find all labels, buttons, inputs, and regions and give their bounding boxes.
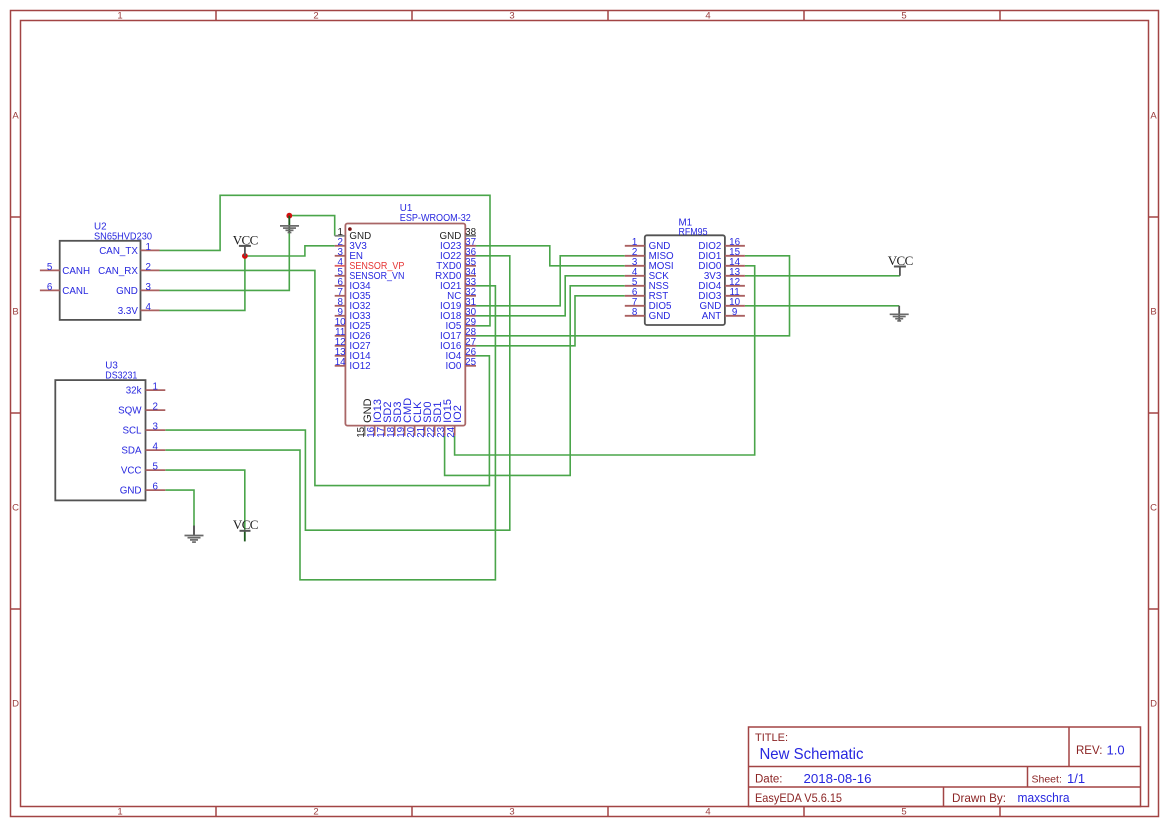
wire net DIO1: U1.28 IO17 to M1.15 DIO1 xyxy=(476,256,790,336)
U1 pin 5 SENSOR_VN xyxy=(335,275,346,277)
wire net VCC: junction down to U2.4 3.3V xyxy=(160,256,245,310)
svg-text:ANT: ANT xyxy=(702,311,722,322)
svg-text:CANL: CANL xyxy=(62,286,89,297)
svg-text:25: 25 xyxy=(465,357,476,368)
svg-text:4: 4 xyxy=(152,442,158,453)
wire net VCC: U3.5 down to VCC symbol xyxy=(165,470,245,531)
svg-text:VCC: VCC xyxy=(233,517,258,532)
U1 pin 23 IO15 xyxy=(444,426,446,436)
wire net MOSI: U1.37 IO23 to M1.3 MOSI xyxy=(476,246,625,266)
svg-text:14: 14 xyxy=(335,357,346,368)
junction dot GND node xyxy=(286,213,292,219)
U2 pin 5 CANH xyxy=(40,269,60,271)
ruler row letters xyxy=(12,110,1157,709)
U3 pin 6 GND xyxy=(146,489,166,491)
wire net GND: U2.3 up to junction at ground xyxy=(160,216,290,291)
wire net CAN_RX: U2.2 to U1.26 IO4 xyxy=(160,270,490,485)
svg-text:D: D xyxy=(1150,698,1157,709)
svg-text:3: 3 xyxy=(509,11,514,22)
svg-text:Date:: Date: xyxy=(755,774,783,786)
svg-text:DS3231: DS3231 xyxy=(105,370,137,381)
U1 pin 15 GND xyxy=(364,426,366,436)
U1 pin 10 IO25 xyxy=(335,325,346,327)
svg-text:A: A xyxy=(12,110,19,121)
wire net SCL: U3.3 to U1.36 IO22 xyxy=(165,256,510,530)
svg-text:VCC: VCC xyxy=(121,466,142,477)
U1 pin 30 IO18 xyxy=(465,315,476,317)
wire net GND: M1.10 GND to ground symbol xyxy=(745,305,899,307)
svg-text:Sheet:: Sheet: xyxy=(1032,774,1062,786)
U1 pin 26 IO4 xyxy=(465,355,476,357)
svg-text:2: 2 xyxy=(145,262,150,273)
U2 pin 4 3.3V xyxy=(141,309,160,311)
M1 pin 10 GND xyxy=(725,305,745,307)
U1 pin 9 IO33 xyxy=(335,315,346,317)
svg-text:CAN_TX: CAN_TX xyxy=(99,246,138,257)
U1 pin 25 IO0 xyxy=(465,365,476,367)
svg-text:RFM95: RFM95 xyxy=(679,227,708,238)
svg-text:1: 1 xyxy=(145,242,150,253)
svg-text:2: 2 xyxy=(313,807,318,818)
wire net NSS: U1.23 IO15 to M1.5 NSS xyxy=(445,286,625,476)
svg-text:1/1: 1/1 xyxy=(1067,771,1085,786)
svg-text:B: B xyxy=(1150,306,1156,317)
wire net SCK: U1.30 IO18 to M1.4 SCK xyxy=(476,276,625,316)
U1 pin 2 3V3 xyxy=(335,245,346,247)
svg-text:4: 4 xyxy=(705,11,710,22)
U2 pin 1 CAN_TX xyxy=(141,249,160,251)
svg-text:IO12: IO12 xyxy=(349,361,370,372)
M1 pin 1 GND xyxy=(625,245,645,247)
M1 pin 6 RST xyxy=(625,295,645,297)
svg-text:ESP-WROOM-32: ESP-WROOM-32 xyxy=(400,213,471,224)
M1 pin 15 DIO1 xyxy=(725,255,745,257)
U1 pin 8 IO32 xyxy=(335,305,346,307)
U1 pin 37 IO23 xyxy=(465,245,476,247)
svg-text:GND: GND xyxy=(649,311,671,322)
svg-text:CAN_RX: CAN_RX xyxy=(98,266,138,277)
ground symbol near M1 xyxy=(898,306,900,321)
U1 pin 34 RXD0 xyxy=(465,275,476,277)
M1 pin 11 DIO3 xyxy=(725,295,745,297)
svg-text:D: D xyxy=(12,698,19,709)
svg-text:3: 3 xyxy=(145,282,151,293)
wire net RST: U1.27 IO16 to M1.6 RST xyxy=(476,296,625,346)
svg-text:maxschra: maxschra xyxy=(1018,790,1071,805)
svg-text:GND: GND xyxy=(120,486,142,497)
U1 pin 36 IO22 xyxy=(465,255,476,257)
U1 pin 29 IO5 xyxy=(465,325,476,327)
ruler column numbers xyxy=(117,11,906,818)
U1 pin 38 GND xyxy=(465,235,476,237)
svg-text:1: 1 xyxy=(117,807,122,818)
svg-text:4: 4 xyxy=(145,302,151,313)
svg-text:32k: 32k xyxy=(126,386,142,397)
svg-text:2018-08-16: 2018-08-16 xyxy=(804,771,872,786)
wire net MISO: U1.31 IO19 to M1.2 MISO xyxy=(476,256,625,306)
M1 pin 12 DIO4 xyxy=(725,285,745,287)
IC U3 DS3231 RTC xyxy=(55,380,145,500)
svg-text:3.3V: 3.3V xyxy=(118,306,139,317)
ground symbol at U2/U1 GND junction xyxy=(288,216,290,233)
U1 pin 18 SD3 xyxy=(394,426,396,436)
svg-text:9: 9 xyxy=(732,307,737,318)
U1 pin 35 TXD0 xyxy=(465,265,476,267)
U1 pin 14 IO12 xyxy=(335,365,346,367)
wire net GND: junction to U1.1 GND xyxy=(289,216,334,236)
svg-text:5: 5 xyxy=(901,11,906,22)
svg-text:SN65HVD230: SN65HVD230 xyxy=(94,231,153,242)
M1 pin 8 GND xyxy=(625,315,645,317)
svg-text:5: 5 xyxy=(152,462,158,473)
U3 pin 5 VCC xyxy=(146,469,166,471)
U1 pin 4 SENSOR_VP xyxy=(335,265,346,267)
svg-text:A: A xyxy=(1150,110,1157,121)
svg-text:Drawn By:: Drawn By: xyxy=(952,791,1006,805)
wire net CAN_TX: U2.1 to U1.29 IO5 xyxy=(160,195,491,325)
wire net DIO0: U1.24 IO2 to M1.14 DIO0 xyxy=(455,266,755,455)
svg-text:B: B xyxy=(12,306,18,317)
U1 pin 3 EN xyxy=(335,255,346,257)
title block xyxy=(749,727,1141,807)
svg-text:REV:: REV: xyxy=(1076,745,1102,757)
wire net SDA: U3.4 to U1.33 IO21 xyxy=(165,286,495,580)
svg-text:2: 2 xyxy=(152,402,157,413)
svg-text:New Schematic: New Schematic xyxy=(760,746,864,763)
U1 pin 28 IO17 xyxy=(465,335,476,337)
M1 pin 7 DIO5 xyxy=(625,305,645,307)
U1 pin 1 marker dot xyxy=(348,227,352,231)
U1 pin 24 IO2 xyxy=(454,426,456,436)
module M1 RFM95 LoRa xyxy=(645,235,725,325)
M1 pin 5 NSS xyxy=(625,285,645,287)
svg-text:IO0: IO0 xyxy=(446,361,462,372)
U1 pin 17 SD2 xyxy=(384,426,386,436)
wire net VCC: junction to U1.2 3V3 xyxy=(245,246,335,256)
svg-text:EasyEDA V5.6.15: EasyEDA V5.6.15 xyxy=(755,791,842,805)
svg-text:6: 6 xyxy=(152,482,158,493)
U2 pin 2 CAN_RX xyxy=(141,269,160,271)
U1 pin 31 IO19 xyxy=(465,305,476,307)
svg-text:24: 24 xyxy=(446,426,457,437)
wire net VCC: M1.13 3V3 to VCC symbol xyxy=(745,275,900,277)
U1 pin 33 IO21 xyxy=(465,285,476,287)
M1 pin 3 MOSI xyxy=(625,265,645,267)
ground symbol below U3 xyxy=(193,526,195,536)
U1 pin 21 SD0 xyxy=(424,426,426,436)
svg-text:5: 5 xyxy=(901,807,906,818)
U1 pin 6 IO34 xyxy=(335,285,346,287)
U1 pin 22 SD1 xyxy=(434,426,436,436)
svg-text:TITLE:: TITLE: xyxy=(755,732,788,744)
junction dot VCC node xyxy=(242,253,248,259)
U1 pin 19 CMD xyxy=(404,426,406,436)
M1 pin 13 3V3 xyxy=(725,275,745,277)
U1 pin 32 NC xyxy=(465,295,476,297)
svg-text:8: 8 xyxy=(632,307,638,318)
svg-text:SQW: SQW xyxy=(118,406,142,417)
svg-text:5: 5 xyxy=(47,262,53,273)
IC U2 SN65HVD230 CAN transceiver xyxy=(60,241,141,320)
wire net GND: U3.6 down to ground symbol xyxy=(165,490,194,526)
svg-text:1: 1 xyxy=(152,382,157,393)
M1 pin 16 DIO2 xyxy=(725,245,745,247)
svg-text:3: 3 xyxy=(152,422,158,433)
svg-text:C: C xyxy=(12,502,19,513)
U1 pin 12 IO27 xyxy=(335,345,346,347)
svg-text:SCL: SCL xyxy=(122,426,142,437)
U3 pin 3 SCL xyxy=(146,429,166,431)
IC U1 ESP-WROOM-32 module xyxy=(345,224,465,426)
U3 pin 1 32k xyxy=(146,389,166,391)
U1 pin 11 IO26 xyxy=(335,335,346,337)
U1 pin 1 GND xyxy=(335,235,346,237)
svg-text:1.0: 1.0 xyxy=(1107,743,1125,758)
U2 pin 6 CANL xyxy=(40,289,60,291)
U1 pin 7 IO35 xyxy=(335,295,346,297)
svg-text:6: 6 xyxy=(47,282,53,293)
U1 pin 16 IO13 xyxy=(374,426,376,436)
power symbol VCC below U3 (rotated) xyxy=(244,531,246,542)
svg-text:CANH: CANH xyxy=(62,266,90,277)
svg-text:4: 4 xyxy=(705,807,710,818)
M1 pin 2 MISO xyxy=(625,255,645,257)
M1 pin 9 ANT xyxy=(725,315,745,317)
svg-text:1: 1 xyxy=(117,11,122,22)
svg-text:3: 3 xyxy=(509,807,514,818)
U1 pin 20 CLK xyxy=(414,426,416,436)
U2 pin 3 GND xyxy=(141,289,160,291)
svg-text:SDA: SDA xyxy=(121,446,142,457)
U1 pin 27 IO16 xyxy=(465,345,476,347)
svg-text:GND: GND xyxy=(116,286,138,297)
M1 pin 14 DIO0 xyxy=(725,265,745,267)
M1 pin 4 SCK xyxy=(625,275,645,277)
U1 pin 13 IO14 xyxy=(335,355,346,357)
U3 pin 2 SQW xyxy=(146,409,166,411)
svg-text:C: C xyxy=(1150,502,1157,513)
U3 pin 4 SDA xyxy=(146,449,166,451)
svg-text:2: 2 xyxy=(313,11,318,22)
svg-text:IO2: IO2 xyxy=(452,405,464,423)
